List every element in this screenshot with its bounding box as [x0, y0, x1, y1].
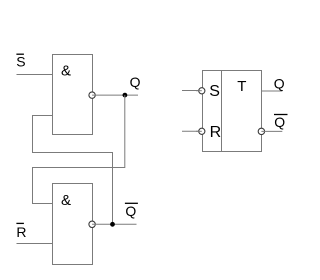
- label block output Q-bar: [274, 114, 288, 130]
- junction node Q: [123, 93, 128, 98]
- label node Q-bar: [125, 203, 138, 219]
- inverter bubble block output Q-bar: [258, 128, 264, 134]
- wire R-bar to U2 input 2: [17, 243, 53, 245]
- latch block U3 body: [203, 71, 262, 152]
- nand gate U2 body: [53, 184, 93, 265]
- inverter bubble U2 output: [89, 221, 95, 227]
- inverter bubble R input: [199, 128, 205, 134]
- junction node Q-bar: [110, 222, 115, 227]
- svg-text:&: &: [61, 63, 71, 80]
- wire U1 output to node Q: [92, 94, 138, 96]
- svg-text:S: S: [16, 54, 25, 70]
- inverter bubble S input: [199, 88, 205, 94]
- latch block U3 divider: [221, 71, 223, 152]
- wire block output Q-bar: [261, 130, 282, 132]
- wire S input stub inside bubble: [196, 90, 202, 92]
- svg-text:&: &: [61, 192, 71, 209]
- wire feedback Q to U2 input 1: [33, 95, 125, 203]
- svg-text:R: R: [16, 224, 26, 240]
- svg-text:R: R: [210, 124, 222, 141]
- label R-bar: [16, 223, 26, 240]
- inverter bubble U1 output: [89, 92, 95, 98]
- svg-text:Q: Q: [130, 74, 141, 90]
- wire U2 output to node Q-bar: [92, 223, 136, 225]
- wire S input to block: [182, 90, 199, 92]
- wire R input to block: [182, 130, 199, 132]
- svg-text:Q: Q: [274, 114, 285, 130]
- svg-text:Q: Q: [125, 203, 136, 219]
- svg-text:S: S: [209, 83, 220, 100]
- svg-text:T: T: [237, 78, 246, 95]
- wire R input stub inside bubble: [196, 130, 202, 132]
- wire feedback Q-bar to U1 input 2: [33, 116, 113, 225]
- wire block output Q: [262, 90, 283, 92]
- label S-bar: [16, 54, 25, 70]
- svg-text:Q: Q: [274, 75, 285, 91]
- nand gate U1 body: [53, 55, 93, 135]
- wire S-bar to U1 input 1: [17, 74, 53, 76]
